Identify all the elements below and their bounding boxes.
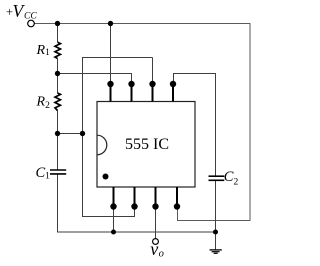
svg-text:CC: CC [24,11,37,21]
svg-text:o: o [159,248,164,259]
svg-text:555 IC: 555 IC [125,136,169,153]
svg-text:v: v [150,239,158,259]
